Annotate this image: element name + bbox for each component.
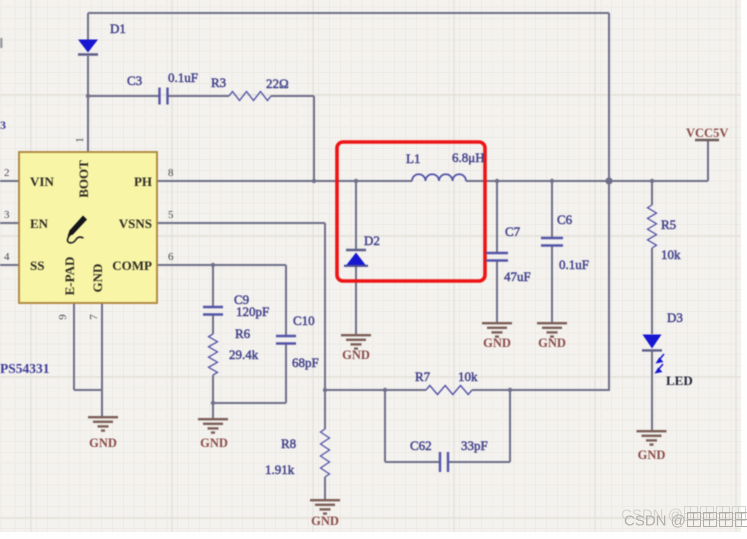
svg-text:0.1uF: 0.1uF: [559, 257, 589, 272]
resistor R5: [648, 205, 657, 248]
wire: D2 branch: [355, 181, 357, 249]
resistor R6: [209, 334, 218, 375]
svg-text:C10: C10: [293, 313, 315, 328]
capacitor C10: [276, 335, 296, 337]
svg-text:E-PAD: E-PAD: [62, 257, 77, 296]
svg-text:SS: SS: [30, 258, 44, 273]
svg-text:LED: LED: [666, 373, 693, 388]
op-amp/regulator IC U1 TPS54331 body: [19, 152, 157, 303]
svg-text:29.4k: 29.4k: [229, 347, 259, 362]
svg-text:GND: GND: [311, 514, 339, 528]
svg-text:5: 5: [168, 209, 174, 221]
svg-text:GND: GND: [89, 436, 117, 450]
ground under R8: [310, 499, 340, 501]
svg-text:GND: GND: [538, 336, 566, 350]
svg-text:33pF: 33pF: [461, 438, 488, 453]
svg-text:47uF: 47uF: [504, 269, 531, 284]
svg-text:C3: C3: [127, 73, 142, 88]
white strip right: [741, 0, 747, 539]
ground under D3: [637, 430, 667, 432]
capacitor C62: [439, 452, 441, 472]
red highlight box: [337, 142, 485, 281]
wire: COMP network row: [157, 264, 286, 266]
ground under C9/R6: [198, 418, 228, 420]
svg-text:GND: GND: [638, 448, 666, 462]
wire: R5 branch: [651, 181, 653, 205]
svg-text:9: 9: [57, 314, 69, 320]
svg-text:22Ω: 22Ω: [266, 76, 289, 91]
wire: R7 feedback row: [325, 389, 426, 391]
resistor R8: [321, 429, 330, 477]
wire: D1 to BOOT vertical: [87, 13, 89, 40]
wire: VCC5V drop: [707, 141, 709, 181]
svg-text:10k: 10k: [661, 247, 681, 262]
power symbol VCC5V bar: [695, 139, 719, 141]
svg-text:10k: 10k: [458, 369, 478, 384]
left edge artifact mark: [0, 38, 3, 48]
resistor R7: [426, 386, 472, 395]
svg-text:GND: GND: [200, 436, 228, 450]
watermark CSDN: [621, 506, 747, 524]
wire: BOOT RC row (C3/R3): [88, 95, 159, 97]
svg-text:VSNS: VSNS: [119, 216, 152, 231]
wire: C9 branch: [212, 265, 214, 307]
diode D3 (LED): [643, 335, 662, 349]
wire: PH output rail: [157, 180, 412, 182]
svg-text:6: 6: [168, 251, 174, 263]
svg-text:3: 3: [0, 118, 6, 132]
svg-text:COMP: COMP: [112, 258, 152, 273]
svg-text:GND: GND: [90, 264, 105, 293]
wire: C7 branch: [496, 181, 498, 253]
wire: EN stub: [0, 222, 19, 224]
svg-text:VCC5V: VCC5V: [686, 126, 728, 140]
wire: C6 branch: [551, 181, 553, 238]
svg-text:GND: GND: [483, 336, 511, 350]
inductor L1: [412, 174, 466, 181]
svg-text:D3: D3: [667, 310, 683, 325]
svg-text:R8: R8: [281, 436, 296, 451]
svg-text:GND: GND: [342, 348, 370, 362]
svg-text:3: 3: [4, 209, 10, 221]
svg-text:D2: D2: [364, 233, 380, 248]
svg-text:EN: EN: [30, 216, 49, 231]
junction dots: [86, 94, 90, 98]
resistor R3: [229, 92, 271, 101]
wire: VIN stub: [0, 180, 19, 182]
capacitor C9: [203, 306, 223, 308]
wire: VSNS feedback: [157, 222, 325, 224]
wire: E-PAD stub: [73, 303, 75, 390]
svg-text:TPS54331: TPS54331: [0, 361, 50, 376]
svg-text:0.1uF: 0.1uF: [168, 70, 198, 85]
svg-text:2: 2: [4, 167, 10, 179]
svg-text:BOOT: BOOT: [76, 160, 91, 198]
svg-text:R3: R3: [211, 75, 226, 90]
svg-text:C62: C62: [410, 438, 432, 453]
wire: D3 to GND: [651, 351, 653, 430]
wire: right vertical VOUT bus: [608, 13, 610, 391]
mouse cursor (pen) over IC: [68, 216, 88, 237]
wire: comp network bottom: [212, 375, 214, 418]
white strip bottom: [0, 532, 747, 539]
ground under C6: [537, 322, 567, 324]
ground under C7: [482, 322, 512, 324]
svg-text:L1: L1: [406, 151, 420, 166]
ground under IC (E-PAD/GND pins): [88, 416, 118, 418]
wire: C62 loop: [384, 390, 386, 462]
svg-text:C6: C6: [557, 212, 573, 227]
diode D1: [78, 40, 98, 53]
wire: C10 branch: [285, 265, 287, 336]
ground under D2: [341, 334, 371, 336]
svg-text:R5: R5: [661, 217, 676, 232]
capacitor C3: [158, 88, 160, 105]
svg-text:D1: D1: [110, 21, 126, 36]
wire: SS stub: [0, 264, 19, 266]
svg-text:6.8μH: 6.8μH: [452, 150, 485, 165]
svg-text:1.91k: 1.91k: [265, 462, 295, 477]
svg-text:8: 8: [168, 167, 174, 179]
svg-text:120pF: 120pF: [236, 304, 269, 319]
svg-text:4: 4: [4, 251, 10, 263]
wire: IC GND stub: [101, 303, 103, 416]
svg-text:R7: R7: [415, 369, 431, 384]
capacitor C6: [541, 237, 563, 239]
wire: R8 to GND: [324, 390, 326, 429]
wire: R3 drop to PH rail: [313, 96, 315, 181]
svg-text:7: 7: [88, 314, 100, 320]
wire: top VOUT loop from D1 anode to right side: [88, 12, 609, 14]
svg-text:1: 1: [74, 137, 86, 143]
svg-text:C7: C7: [505, 224, 521, 239]
capacitor C7: [486, 252, 508, 254]
svg-text:PH: PH: [134, 174, 152, 189]
svg-text:68pF: 68pF: [292, 355, 319, 370]
diode D2: [346, 249, 366, 252]
LED emission arrows: [656, 354, 664, 373]
svg-text:R6: R6: [235, 326, 251, 341]
svg-text:VIN: VIN: [30, 174, 54, 189]
